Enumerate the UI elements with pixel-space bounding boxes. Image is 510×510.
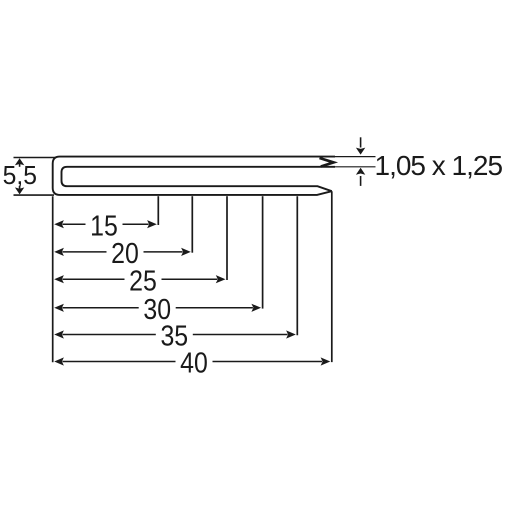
svg-text:5,5: 5,5 — [3, 161, 37, 190]
svg-text:40: 40 — [180, 347, 208, 379]
svg-text:1,05 x 1,25: 1,05 x 1,25 — [375, 150, 503, 181]
svg-text:25: 25 — [129, 265, 157, 297]
